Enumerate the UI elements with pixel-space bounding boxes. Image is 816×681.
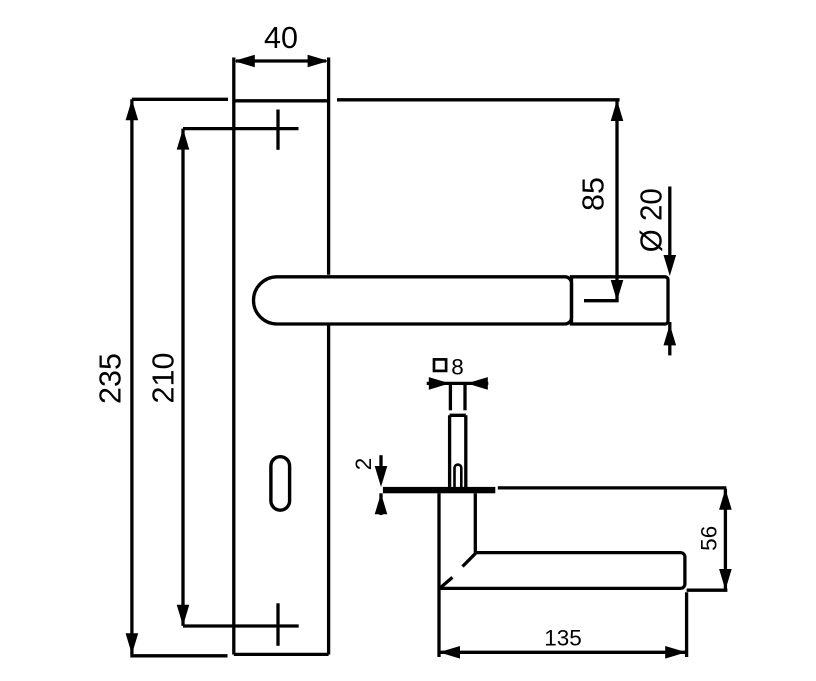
- handle neck (front view): [572, 277, 669, 324]
- svg-text:8: 8: [451, 354, 464, 379]
- svg-text:2: 2: [351, 458, 376, 471]
- top screw-hole cross: [276, 110, 279, 150]
- dimension 2 (plate thickness): [379, 455, 382, 515]
- spindle shaft (side view): [450, 415, 466, 488]
- rose plate (side view, 2 mm): [383, 487, 495, 493]
- svg-text:Ø 20: Ø 20: [635, 188, 669, 252]
- backplate outline (front view): [234, 58, 329, 655]
- tangent edge at inner bend: [463, 553, 476, 566]
- svg-text:135: 135: [544, 626, 582, 651]
- svg-text:210: 210: [147, 353, 181, 404]
- dimension 135 (handle length): [439, 592, 687, 657]
- handle (side view): [439, 493, 685, 657]
- lever handle grip (front view): [254, 277, 572, 324]
- keyhole slot: [271, 457, 290, 511]
- tangent edge at outer bend: [439, 577, 452, 588]
- bottom screw-hole cross: [276, 603, 279, 646]
- svg-text:40: 40: [264, 21, 298, 55]
- dimension square 8 (spindle): [427, 382, 489, 385]
- svg-text:56: 56: [696, 526, 721, 551]
- spindle screw slot: [455, 465, 462, 489]
- svg-text:235: 235: [93, 353, 127, 404]
- spindle upper guides (side view): [450, 383, 465, 410]
- svg-text:85: 85: [577, 177, 611, 211]
- dimension 210 (screw hole distance): [183, 129, 299, 626]
- dimension 56 (handle height): [498, 488, 728, 590]
- dimension 85 (plate top to handle axis): [337, 100, 620, 301]
- dimension 235 (plate height): [130, 99, 228, 656]
- dimension diameter 20 (handle tube): [668, 187, 671, 356]
- dimension 40 (plate width): [236, 59, 326, 62]
